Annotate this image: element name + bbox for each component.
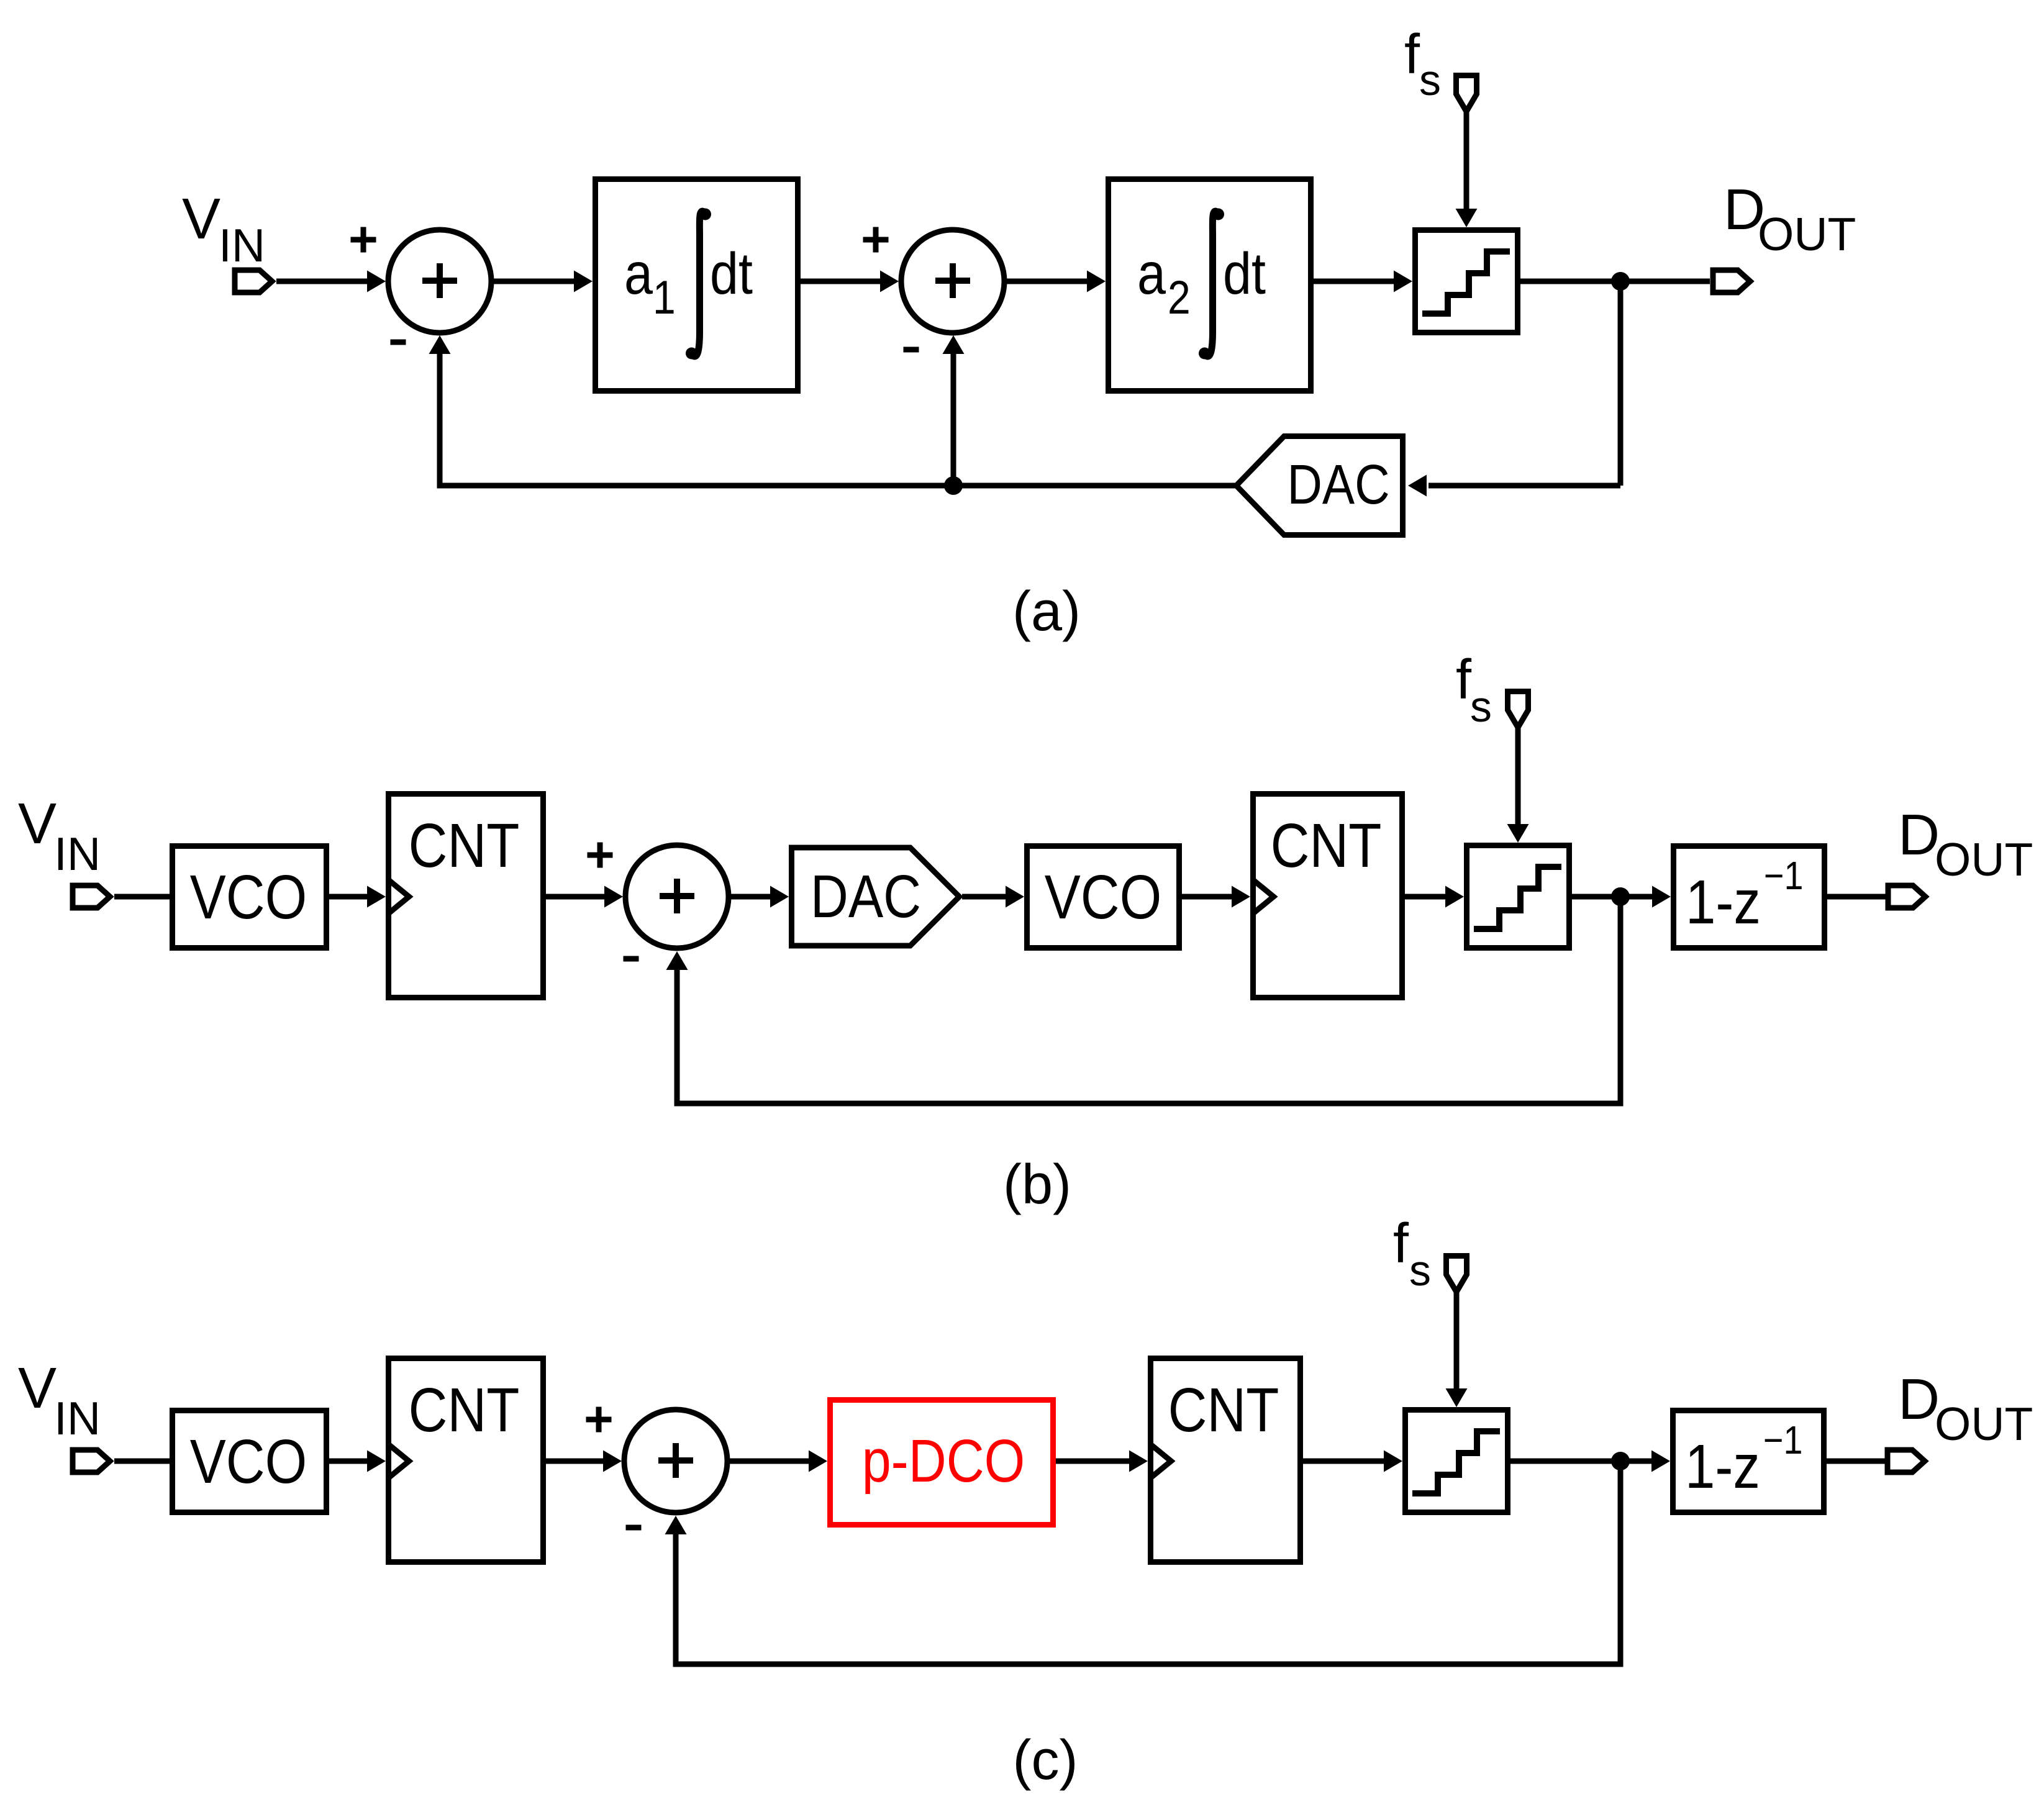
svg-text:s: s [1419,56,1441,104]
svg-text:CNT: CNT [1168,1375,1279,1444]
svg-text:p-DCO: p-DCO [862,1428,1025,1495]
svg-text:D: D [1898,802,1940,867]
svg-text:IN: IN [219,219,265,271]
svg-text:s: s [1409,1246,1431,1295]
svg-text:V: V [18,1356,57,1420]
svg-text:VCO: VCO [1045,862,1162,931]
svg-text:OUT: OUT [1935,833,2033,885]
svg-text:a: a [1137,240,1166,307]
svg-text:(c): (c) [1013,1729,1078,1791]
svg-text:(b): (b) [1003,1154,1071,1216]
svg-text:dt: dt [1223,240,1266,307]
svg-text:OUT: OUT [1758,208,1856,260]
svg-text:1-z: 1-z [1686,867,1761,936]
svg-text:VCO: VCO [190,862,307,931]
svg-text:CNT: CNT [409,810,520,880]
svg-text:DAC: DAC [811,864,921,931]
svg-text:IN: IN [54,828,101,880]
svg-text:DAC: DAC [1287,453,1389,515]
svg-text:(a): (a) [1012,581,1081,643]
svg-text:−1: −1 [1764,853,1803,897]
svg-text:f: f [1404,24,1420,86]
svg-text:V: V [18,791,57,856]
svg-text:1: 1 [653,272,676,324]
svg-text:2: 2 [1168,272,1191,324]
svg-text:a: a [624,240,653,307]
svg-text:VCO: VCO [190,1426,307,1496]
svg-text:−1: −1 [1763,1418,1802,1462]
svg-text:D: D [1898,1367,1940,1431]
svg-text:V: V [182,186,220,251]
svg-text:OUT: OUT [1935,1398,2033,1450]
svg-text:s: s [1470,682,1492,731]
svg-text:f: f [1393,1213,1409,1275]
svg-text:dt: dt [710,240,753,307]
svg-text:CNT: CNT [1271,810,1382,880]
svg-text:IN: IN [54,1392,101,1444]
svg-text:CNT: CNT [409,1375,520,1444]
svg-text:1-z: 1-z [1685,1431,1760,1501]
